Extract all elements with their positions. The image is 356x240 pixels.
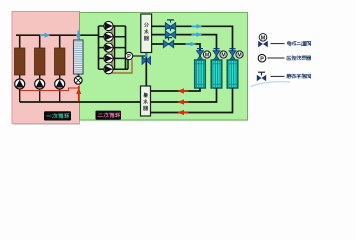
- svg-text:M: M: [205, 53, 209, 59]
- svg-text:P: P: [127, 54, 131, 60]
- svg-text:P: P: [260, 56, 264, 62]
- svg-text:M: M: [237, 53, 241, 59]
- svg-text:M: M: [261, 35, 266, 41]
- svg-text:M: M: [221, 53, 225, 59]
